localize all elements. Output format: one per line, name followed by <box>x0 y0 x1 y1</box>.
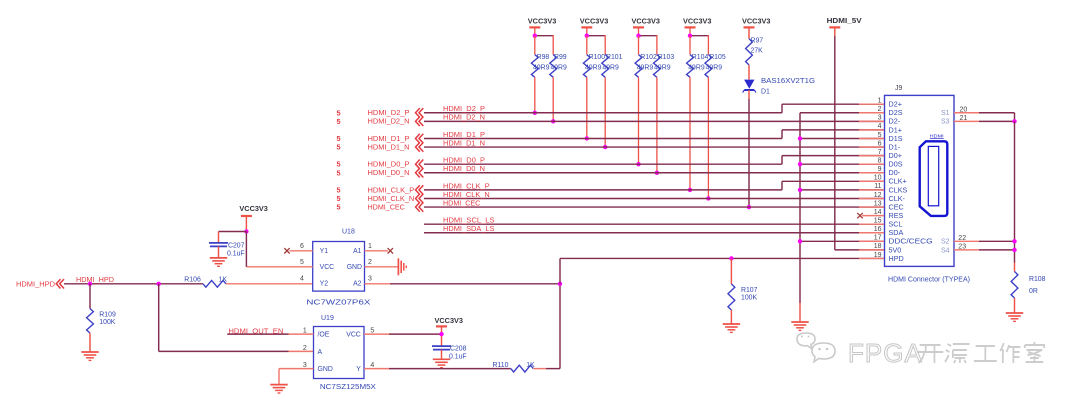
svg-text:HDMI_CLK_P: HDMI_CLK_P <box>443 182 490 190</box>
wire J9 pin 20 (S1) <box>954 113 1015 122</box>
svg-text:VCC3V3: VCC3V3 <box>435 316 464 325</box>
svg-text:HDMI_D0_N: HDMI_D0_N <box>368 168 410 177</box>
svg-text:1: 1 <box>878 98 882 105</box>
svg-text:6: 6 <box>878 140 882 147</box>
svg-text:5: 5 <box>300 259 304 266</box>
wire HDMI_D1_P <box>424 130 884 139</box>
wire S-net vertical <box>1014 121 1016 262</box>
svg-text:GND: GND <box>347 264 362 271</box>
svg-text:VCC: VCC <box>346 332 361 339</box>
svg-text:14: 14 <box>874 209 882 216</box>
svg-text:2: 2 <box>368 259 372 266</box>
svg-text:R107: R107 <box>741 287 758 294</box>
svg-text:VCC3V3: VCC3V3 <box>528 17 557 26</box>
svg-text:A1: A1 <box>353 248 362 255</box>
svg-text:HDMI: HDMI <box>930 133 944 138</box>
svg-text:C207: C207 <box>228 243 245 250</box>
wire HDMI_SDA_LS <box>424 232 884 234</box>
off-page connector HDMI_D2_N <box>368 117 424 126</box>
svg-text:VCC3V3: VCC3V3 <box>580 17 609 26</box>
wire HDMI_OUT_EN to U19 pin 1 (/OE) <box>227 333 313 335</box>
svg-text:S4: S4 <box>941 247 950 254</box>
off-page connector HDMI_CLK_P <box>368 185 424 194</box>
resistor R100 49R9 (pull-up) <box>583 36 605 139</box>
wire HDMI_D2_P <box>424 104 884 113</box>
J9 pin names S1 S3 S2 S4 <box>941 110 950 254</box>
wire D1 cathode to HDMI_CEC <box>748 90 750 207</box>
no-connect X U18 pin 1 <box>388 248 393 253</box>
svg-text:GND: GND <box>318 366 333 373</box>
wire HDMI_HPD (left run) <box>64 283 203 285</box>
resistor R101 49R9 (pull-up) <box>602 54 623 147</box>
junction HDMI_HPD / R109 <box>88 282 92 286</box>
junction VCC3V3 column 1 <box>533 34 537 38</box>
junction R103 on N wire <box>655 171 659 175</box>
junction VCC3V3 column 3 <box>636 34 640 38</box>
off-page connector HDMI_HPD <box>16 279 64 288</box>
wire HDMI_HPD to U19 pin 2 (A) <box>159 284 314 352</box>
wire U18 pin 3 (A2) to HPD node <box>365 283 561 285</box>
resistor R106 1K <box>184 276 312 287</box>
power symbol VCC3V3 (column 3) <box>632 17 661 36</box>
ground (C207) <box>210 258 227 266</box>
resistor R99 49R9 (pull-up) <box>550 54 567 121</box>
svg-text:9: 9 <box>878 166 882 173</box>
svg-text:7: 7 <box>878 149 882 156</box>
junction R104 on P wire <box>688 188 692 192</box>
svg-text:1: 1 <box>368 243 372 250</box>
svg-text:R108: R108 <box>1029 276 1046 283</box>
J9 pin stubs <box>859 104 884 258</box>
wire VCC3V3 branch to R99 <box>535 35 553 55</box>
capacitor C207 0.1uF <box>209 232 246 258</box>
svg-text:11: 11 <box>874 183 881 190</box>
svg-text:13: 13 <box>874 200 882 207</box>
wire U18 pin 6 (Y1) no-connect <box>290 250 313 252</box>
J9 pin numbers 1-19 <box>874 98 882 259</box>
svg-text:S3: S3 <box>941 119 950 126</box>
junction VCC3V3 / C207 <box>244 229 248 233</box>
svg-text:D1: D1 <box>761 89 770 96</box>
wire VCC3V3 branch to R105 <box>690 35 708 55</box>
svg-text:C208: C208 <box>450 346 467 353</box>
power symbol VCC3V3 (C207) <box>239 204 268 232</box>
resistor R97 27K <box>746 38 764 80</box>
wire U19 pin 5 (VCC) to C208 <box>364 333 442 335</box>
svg-text:HDMI_CLK_N: HDMI_CLK_N <box>443 191 490 199</box>
svg-text:5: 5 <box>336 117 340 126</box>
svg-text:HDMI_5V: HDMI_5V <box>827 16 862 25</box>
ground (R109) <box>81 352 98 360</box>
svg-text:HDMI_HPD: HDMI_HPD <box>76 276 114 284</box>
svg-text:HDMI_D0_N: HDMI_D0_N <box>443 165 485 173</box>
off-page connector HDMI_D1_P <box>368 134 424 143</box>
resistor R109 100K <box>87 284 116 352</box>
svg-text:18: 18 <box>874 243 882 250</box>
svg-text:VCC3V3: VCC3V3 <box>239 204 268 213</box>
svg-text:J9: J9 <box>895 85 903 92</box>
resistor R110 1K <box>493 362 561 372</box>
wire U18 pin 2 (GND) <box>365 266 399 268</box>
svg-text:HDMI_OUT_EN: HDMI_OUT_EN <box>228 326 283 335</box>
svg-text:HDMI_D0_P: HDMI_D0_P <box>443 157 485 165</box>
op-amp/buffer U18 NC7WZ07P6X <box>306 229 370 307</box>
off-page connector HDMI_D1_N <box>368 142 424 151</box>
junction VCC3V3 / C208 <box>439 332 443 336</box>
svg-text:HDMI_CEC: HDMI_CEC <box>368 202 405 211</box>
svg-text:R109: R109 <box>99 312 116 319</box>
svg-text:HDMI_D2_N: HDMI_D2_N <box>443 114 485 122</box>
power symbol VCC3V3 (column 1) <box>528 17 557 36</box>
svg-text:R98: R98 <box>537 54 550 61</box>
power symbol HDMI_5V <box>827 16 862 36</box>
junction S-net at S3 <box>1012 119 1016 123</box>
junction R100 on P wire <box>585 136 589 140</box>
capacitor C208 0.1uF <box>432 346 467 361</box>
junction VCC3V3 column 2 <box>585 34 589 38</box>
svg-text:16: 16 <box>874 226 882 233</box>
power symbol VCC3V3 (column 2) <box>580 17 609 36</box>
no-connect X J9 pin 14 (RES) <box>857 213 862 218</box>
wire shield ground net (D2S/D1S/D0S/CLKS/DDC) <box>800 113 884 322</box>
svg-text:HDMI_D1_N: HDMI_D1_N <box>443 139 485 147</box>
J9 pin names (left) <box>889 100 933 263</box>
resistor R107 100K <box>728 258 758 324</box>
svg-text:12: 12 <box>874 192 882 199</box>
svg-text:R103: R103 <box>658 54 675 61</box>
ground (R108) <box>1006 313 1023 321</box>
svg-text:Y2: Y2 <box>320 281 329 288</box>
watermark FPGA logo icon <box>797 333 835 362</box>
off-page connector HDMI_D2_P <box>368 108 424 117</box>
resistor R105 49R9 (pull-up) <box>705 54 726 198</box>
junction R99 on N wire <box>551 119 555 123</box>
diode D1 BAS16XV2T1G <box>743 78 815 96</box>
wire J9 pin 23 (S4) <box>954 249 1015 251</box>
svg-text:2: 2 <box>303 345 307 352</box>
svg-text:NC7SZ125M5X: NC7SZ125M5X <box>320 384 376 391</box>
svg-text:S2: S2 <box>941 239 950 246</box>
off-page connector HDMI_CEC <box>368 202 424 211</box>
svg-text:R104: R104 <box>692 54 709 61</box>
wire HDMI_CEC <box>424 206 884 208</box>
svg-text:49R9: 49R9 <box>688 64 705 71</box>
junction S-net at S2 <box>1012 239 1016 243</box>
svg-text:HDMI_SDA_LS: HDMI_SDA_LS <box>443 225 495 233</box>
watermark text (CJK strokes) <box>917 342 1044 363</box>
svg-text:VCC3V3: VCC3V3 <box>683 17 712 26</box>
junction shield D0S <box>798 162 802 166</box>
svg-text:19: 19 <box>874 252 882 259</box>
svg-text:0.1uF: 0.1uF <box>227 251 245 258</box>
wire VCC3V3 to U18 pin 5 <box>245 232 247 267</box>
resistor R108 0R <box>1011 263 1046 314</box>
connector J9 (HDMI Type A) <box>885 85 971 284</box>
svg-text:2: 2 <box>878 106 882 113</box>
wire HDMI_D0_P <box>424 156 884 165</box>
svg-text:3: 3 <box>878 115 882 122</box>
wire HDMI_D0_N <box>424 172 884 174</box>
ground (U18 pin 2, sideways) <box>398 258 406 275</box>
svg-text:U18: U18 <box>342 229 355 236</box>
wire J9 pin 22 (S2) <box>954 240 1015 242</box>
svg-text:U19: U19 <box>321 315 334 322</box>
U18 pin names <box>320 248 362 288</box>
svg-text:10: 10 <box>874 175 882 182</box>
svg-text:100K: 100K <box>99 319 115 326</box>
junction VCC3V3 column 4 <box>688 34 692 38</box>
junction HDMI_HPD / U19.A branch <box>157 282 161 286</box>
wire U19 pin 4 (Y) <box>364 368 511 370</box>
svg-text:4: 4 <box>878 123 882 130</box>
svg-text:15: 15 <box>874 217 882 224</box>
svg-text:5: 5 <box>336 203 340 212</box>
junction HPD / A2 / R110 <box>558 282 562 286</box>
svg-text:49R9: 49R9 <box>706 64 723 71</box>
svg-text:49R9: 49R9 <box>585 64 602 71</box>
svg-text:R99: R99 <box>554 54 567 61</box>
no-connect X U18 pin 6 <box>284 248 289 253</box>
svg-text:R97: R97 <box>751 38 764 45</box>
svg-text:49R9: 49R9 <box>602 64 619 71</box>
svg-text:5: 5 <box>878 132 882 139</box>
svg-text:HDMI_D1_P: HDMI_D1_P <box>443 131 485 139</box>
ground (U19 pin 3) <box>270 385 287 393</box>
wire HDMI_5V to pin 18 (5V0) <box>835 36 884 250</box>
junction R101 on N wire <box>603 145 607 149</box>
svg-text:R110: R110 <box>493 362 509 369</box>
wire HDMI_D2_N <box>424 120 884 122</box>
svg-text:1K: 1K <box>219 276 228 283</box>
svg-text:HDMI_D2_P: HDMI_D2_P <box>443 105 485 113</box>
svg-text:VCC: VCC <box>320 264 335 271</box>
svg-text:HDMI_CEC: HDMI_CEC <box>443 199 480 207</box>
svg-text:VCC3V3: VCC3V3 <box>742 17 771 26</box>
wire HDMI_SCL_LS <box>424 223 884 225</box>
svg-text:BAS16XV2T1G: BAS16XV2T1G <box>761 78 815 85</box>
svg-text:HDMI_D2_N: HDMI_D2_N <box>368 117 410 126</box>
junction shield D1S <box>798 136 802 140</box>
off-page connector HDMI_D0_P <box>368 159 424 168</box>
svg-text:S1: S1 <box>941 110 950 117</box>
ground (C208) <box>433 359 450 367</box>
svg-text:HDMI Connector (TYPEA): HDMI Connector (TYPEA) <box>888 275 970 284</box>
svg-text:49R9: 49R9 <box>550 64 567 71</box>
svg-text:8: 8 <box>878 157 882 164</box>
svg-text:49R9: 49R9 <box>654 64 671 71</box>
svg-text:27K: 27K <box>751 48 764 55</box>
svg-text:Y: Y <box>356 366 361 373</box>
J9 pin numbers 20-23 <box>958 106 967 250</box>
ground (R107) <box>723 324 740 332</box>
svg-text:4: 4 <box>300 276 304 283</box>
svg-text:HDMI_SCL_LS: HDMI_SCL_LS <box>443 217 495 225</box>
resistor R98 49R9 (pull-up) <box>531 36 549 113</box>
svg-text:49R9: 49R9 <box>533 64 550 71</box>
wire VCC3V3 branch to R103 <box>639 35 657 55</box>
off-page connector HDMI_D0_N <box>368 168 424 177</box>
svg-text:HDMI_HPD: HDMI_HPD <box>16 279 55 288</box>
wire J9 pin 21 (S3) <box>954 120 1015 122</box>
svg-text:A2: A2 <box>353 281 362 288</box>
svg-text:FPGA: FPGA <box>848 338 923 368</box>
wire R110 up to HPD node <box>559 284 561 369</box>
wire HDMI_CLK_P <box>424 181 884 190</box>
wire HPD node to J9 pin 19 <box>560 258 884 283</box>
wire U18 pin 5 (VCC) <box>247 266 313 268</box>
junction R105 on N wire <box>706 196 710 200</box>
power symbol VCC3V3 (column 4) <box>683 17 712 36</box>
HDMI plug symbol <box>920 133 948 216</box>
buffer U19 NC7SZ125M5X <box>314 315 377 391</box>
junction S-net at S4 <box>1012 248 1016 252</box>
wire U18 pin 1 (A1) no-connect <box>365 250 389 252</box>
junction HPD / R107 <box>729 256 733 260</box>
svg-text:17: 17 <box>874 235 882 242</box>
svg-text:5: 5 <box>336 168 340 177</box>
svg-text:R105: R105 <box>709 54 726 61</box>
svg-text:6: 6 <box>300 243 304 250</box>
resistor R102 49R9 (pull-up) <box>635 36 657 164</box>
svg-text:HDMI_D1_N: HDMI_D1_N <box>368 142 410 151</box>
svg-text:NC7WZ07P6X: NC7WZ07P6X <box>306 300 370 307</box>
svg-text:0.1uF: 0.1uF <box>449 353 467 360</box>
wire HDMI_CLK_N <box>424 197 884 199</box>
svg-text:5: 5 <box>336 143 340 152</box>
svg-text:A: A <box>318 349 323 356</box>
off-page connector HDMI_CLK_N <box>368 194 424 203</box>
svg-text:100K: 100K <box>741 294 757 301</box>
svg-text:HPD: HPD <box>889 254 904 263</box>
junction R98 on P wire <box>533 111 537 115</box>
svg-text:49R9: 49R9 <box>637 64 654 71</box>
wire U19 pin 3 (GND) <box>279 369 314 385</box>
power symbol VCC3V3 (R97 column) <box>742 17 771 39</box>
U19 pin names <box>318 332 362 374</box>
power symbol VCC3V3 (C208) <box>435 316 464 346</box>
wire HDMI_D1_N <box>424 146 884 148</box>
junction shield DDC/CECG <box>798 239 802 243</box>
svg-text:Y1: Y1 <box>320 248 329 255</box>
svg-text:3: 3 <box>368 276 372 283</box>
svg-text:R102: R102 <box>640 54 657 61</box>
svg-text:VCC3V3: VCC3V3 <box>632 17 661 26</box>
svg-text:0R: 0R <box>1029 288 1038 295</box>
resistor R103 49R9 (pull-up) <box>654 54 675 173</box>
ground (shield net) <box>791 322 808 330</box>
junction shield CLKS <box>798 188 802 192</box>
junction R102 on P wire <box>636 162 640 166</box>
svg-text:R100: R100 <box>589 54 606 61</box>
svg-text:R106: R106 <box>184 276 201 283</box>
svg-text:R101: R101 <box>606 54 623 61</box>
junction D1 on CEC wire <box>747 205 751 209</box>
resistor R104 49R9 (pull-up) <box>687 36 709 190</box>
wire VCC3V3 branch to R101 <box>587 35 605 55</box>
svg-text:/OE: /OE <box>318 332 330 339</box>
